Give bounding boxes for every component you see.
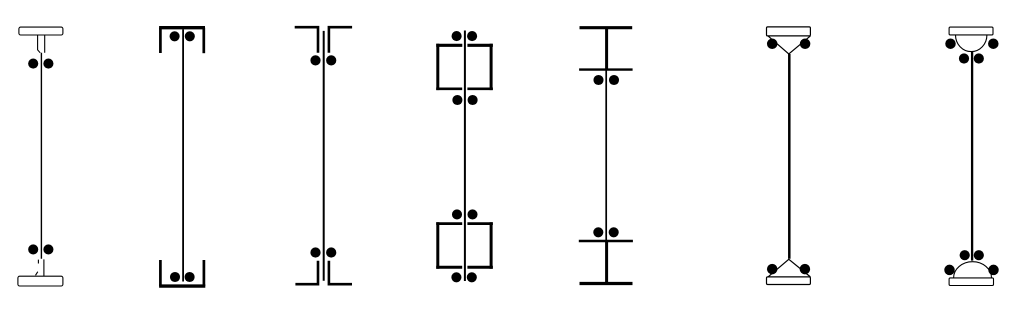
section 7 top outer weld right (988, 38, 999, 49)
section 4 top box lower weld right (468, 95, 478, 105)
section 1 bottom flange plate (18, 276, 63, 286)
section 4 bottom box lower weld right (467, 272, 477, 282)
section 2 top channel right lip (202, 28, 205, 54)
section 4 bottom box bottom edge (split at web) (436, 266, 493, 269)
section 1 web plate (40, 53, 42, 259)
section 6 top weld right (800, 39, 811, 50)
section 7 bottom inner weld right (974, 250, 984, 260)
section 2 bottom channel left lip (159, 260, 162, 286)
section 4 bottom box right wall (490, 222, 493, 269)
section 1 top weld right (43, 59, 53, 69)
section 4 bottom box left wall (436, 222, 439, 269)
section 2 bottom weld right (185, 272, 195, 282)
section 4 top box bottom edge (split at web) (436, 87, 493, 90)
section 3 web plate (323, 31, 325, 281)
section 4 top box right wall (490, 44, 493, 90)
section 4 bottom box lower weld left (451, 272, 461, 282)
section 3 bottom weld left (310, 247, 320, 257)
section 5 top weld left (593, 75, 603, 85)
section 2 bottom weld left (170, 272, 180, 282)
section 5 bottom weld right (609, 227, 619, 237)
section 5 bottom tee flange (580, 282, 633, 285)
section 1 bottom weld left (28, 244, 38, 254)
section 3 top right angle (329, 27, 352, 53)
section 7 top inner weld left (959, 53, 969, 63)
section 5 top splice plate (579, 68, 633, 70)
section 4 top box upper weld right (467, 31, 477, 41)
section 4 bottom box top edge (split at web) (436, 222, 493, 225)
section 6 bottom weld left (767, 264, 778, 275)
section 3 top weld left (310, 55, 320, 65)
section 1 top tee stem (38, 35, 45, 53)
section 2 bottom channel right lip (203, 260, 206, 286)
section 4 bottom box upper weld left (452, 209, 462, 219)
section 1 top flange plate (19, 27, 63, 35)
section 5 top weld right (609, 75, 619, 85)
section 3 top left angle (295, 27, 318, 53)
section 7 top flange plate (949, 27, 993, 35)
section 6 bottom weld right (800, 264, 811, 275)
section 6 bottom flange plate (767, 277, 811, 285)
section 6 web plate (788, 54, 791, 259)
section 5 bottom weld left (593, 227, 603, 237)
section 5 web plate (605, 70, 607, 241)
section 5 top tee stem (605, 28, 608, 70)
section 7 bottom outer weld left (944, 265, 955, 276)
section 6 top weld left (767, 39, 778, 50)
section 3 bottom weld right (326, 247, 336, 257)
section 6 top flange plate (767, 27, 811, 36)
section 7 bottom outer weld right (988, 265, 999, 276)
section 2 web plate (182, 29, 184, 281)
section 4 top box top edge (split at web) (436, 44, 493, 47)
section 2 top channel left lip (159, 28, 162, 53)
section 4 bottom box upper weld right (467, 209, 477, 219)
section 7 bottom inner weld left (960, 250, 970, 260)
section 7 bottom flange plate (949, 278, 993, 286)
section 4 top box lower weld left (452, 95, 462, 105)
section 1 top weld left (28, 59, 38, 69)
section 5 bottom splice plate (579, 240, 633, 242)
section 7 top outer weld left (945, 38, 956, 49)
section 4 top box left wall (436, 44, 439, 90)
section 6 top V stiffener (768, 36, 810, 54)
section 4 top box upper weld left (452, 31, 462, 41)
section 7 bottom half-round stiffener (954, 262, 992, 278)
section 2 bottom channel flange bar (159, 284, 205, 287)
section 7 top inner weld right (974, 53, 984, 63)
section 3 top weld right (326, 55, 336, 65)
section 2 top channel flange bar (159, 26, 205, 29)
section 1 bottom tee stem (36, 259, 44, 276)
section 6 bottom V stiffener (768, 259, 810, 277)
section 3 bottom left angle (295, 261, 318, 285)
section 7 web plate (971, 52, 973, 261)
section 3 bottom right angle (329, 261, 352, 285)
section 5 top tee flange (580, 26, 633, 29)
section 1 bottom weld right (43, 244, 53, 254)
section 4 web plate (464, 31, 466, 282)
section 5 bottom tee stem (605, 241, 608, 284)
section 2 top weld left (170, 31, 180, 41)
section 2 top weld right (185, 31, 195, 41)
section 7 top half-round stiffener (956, 35, 987, 52)
